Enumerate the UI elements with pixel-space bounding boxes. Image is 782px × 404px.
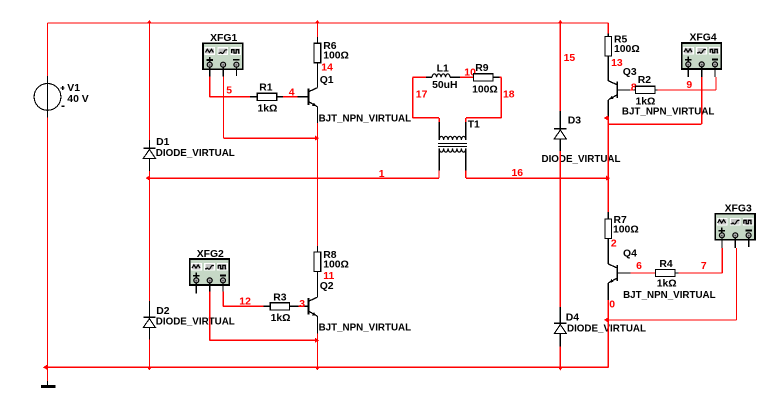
- resistor R3: [270, 303, 289, 310]
- resistor R6: [314, 43, 321, 63]
- svg-text:BJT_NPN_VIRTUAL: BJT_NPN_VIRTUAL: [622, 106, 715, 117]
- XFG4 terminal stubs: [687, 66, 689, 77]
- wire bottom rail: [48, 366, 609, 368]
- svg-text:0: 0: [609, 300, 615, 311]
- resistor R7: [605, 219, 612, 239]
- junction top rail / D3 column: [558, 20, 563, 24]
- diode D1 leads: [148, 140, 150, 171]
- wire net 5: [210, 96, 250, 98]
- diode D3: [554, 128, 566, 130]
- svg-text:D1: D1: [156, 137, 170, 148]
- svg-text:DIODE_VIRTUAL: DIODE_VIRTUAL: [542, 154, 622, 165]
- wire Q4 base lead: [617, 272, 630, 274]
- wire secondary left lead: [438, 148, 440, 170]
- svg-text:DIODE_VIRTUAL: DIODE_VIRTUAL: [567, 323, 647, 334]
- XFG2 terminal stubs: [195, 282, 197, 293]
- svg-text:BJT_NPN_VIRTUAL: BJT_NPN_VIRTUAL: [319, 323, 412, 334]
- svg-text:1kΩ: 1kΩ: [271, 313, 291, 324]
- diode D4: [554, 322, 566, 324]
- wire net 17: [413, 76, 426, 78]
- svg-text:4: 4: [289, 88, 295, 99]
- wire net 3: [299, 305, 305, 307]
- wire primary left lead: [438, 118, 440, 122]
- svg-text:15: 15: [564, 53, 576, 64]
- wire Q2 base lead: [305, 305, 309, 307]
- resistor R2 leads: [633, 89, 635, 91]
- junction node 16 right: [606, 176, 610, 181]
- transistor Q4: [616, 265, 618, 281]
- diode D2 leads: [148, 301, 150, 340]
- transistor Q2: [308, 298, 310, 314]
- svg-text:40 V: 40 V: [67, 94, 88, 105]
- svg-text:DIODE_VIRTUAL: DIODE_VIRTUAL: [156, 148, 236, 159]
- diode D3 leads: [559, 111, 561, 151]
- diode D2: [143, 316, 155, 318]
- transistor Q3: [616, 82, 618, 98]
- resistor R4 leads: [675, 272, 679, 274]
- junction Q1 emitter node: [315, 136, 319, 141]
- resistor R8: [314, 252, 321, 272]
- wire net 6: [631, 272, 656, 274]
- resistor R5: [605, 37, 612, 57]
- svg-text:100Ω: 100Ω: [614, 44, 640, 55]
- svg-text:3: 3: [299, 299, 305, 310]
- svg-text:16: 16: [512, 168, 524, 179]
- svg-text:13: 13: [611, 58, 623, 69]
- svg-text:R4: R4: [659, 259, 673, 270]
- wire net 9: [658, 89, 716, 91]
- resistor R6 leads: [316, 37, 318, 43]
- wire Q4 emitter to bottom rail: [607, 300, 609, 367]
- wire top rail: [48, 22, 609, 24]
- wire node 1: [149, 177, 439, 179]
- svg-text:R9: R9: [475, 63, 489, 74]
- junction bottom rail / D2 column: [147, 367, 152, 371]
- wire D1-D2 mid: [148, 171, 150, 301]
- ground: [41, 385, 56, 388]
- svg-text:5: 5: [226, 86, 232, 97]
- transformer T1 secondary: [439, 148, 466, 152]
- wire D3 column upper: [559, 23, 561, 111]
- wire net 18: [500, 76, 502, 78]
- transistor Q1: [308, 89, 310, 105]
- svg-text:17: 17: [416, 90, 428, 101]
- svg-text:R1: R1: [259, 83, 273, 94]
- svg-text:R3: R3: [273, 293, 287, 304]
- svg-text:D3: D3: [568, 116, 582, 127]
- wire XFG4 common to emitter: [701, 77, 703, 124]
- wire net 4: [283, 96, 298, 98]
- wire D2 to bottom rail: [148, 340, 150, 368]
- wire node 16: [466, 177, 609, 179]
- resistor R5 leads: [607, 33, 609, 36]
- svg-text:Q2: Q2: [320, 281, 334, 292]
- resistor R4: [656, 269, 675, 276]
- wire rail corner to R5: [607, 23, 609, 33]
- diode D1: [143, 147, 155, 149]
- svg-text:1kΩ: 1kΩ: [657, 279, 677, 290]
- resistor R3 leads: [290, 305, 299, 307]
- wire D3-D4 mid: [559, 151, 561, 307]
- resistor R7 leads: [607, 212, 609, 219]
- resistor R2: [636, 86, 655, 93]
- svg-text:9: 9: [686, 80, 692, 91]
- resistor R9: [474, 74, 493, 81]
- wire primary right lead: [465, 118, 467, 122]
- svg-text:18: 18: [503, 90, 515, 101]
- svg-text:1: 1: [379, 169, 385, 180]
- wire net 10: [460, 76, 474, 78]
- svg-text:R2: R2: [638, 75, 652, 86]
- transformer T1 primary: [439, 136, 466, 140]
- wire V1 top lead to rail: [47, 23, 49, 76]
- junction Q2 emitter node: [315, 338, 319, 343]
- wire rail to R6: [316, 23, 318, 37]
- svg-text:D2: D2: [156, 306, 170, 317]
- svg-text:100Ω: 100Ω: [323, 260, 349, 271]
- wire Q3 emitter black: [607, 100, 609, 117]
- svg-text:50uH: 50uH: [432, 80, 457, 91]
- svg-text:BJT_NPN_VIRTUAL: BJT_NPN_VIRTUAL: [319, 114, 412, 125]
- wire net 8: [630, 89, 634, 91]
- svg-text:1kΩ: 1kΩ: [636, 96, 656, 107]
- junction bottom rail / Q2 column: [315, 367, 320, 371]
- wire Q1 emitter column: [316, 107, 318, 124]
- svg-text:14: 14: [321, 62, 333, 73]
- resistor R9 lead: [493, 76, 500, 78]
- svg-text:Q4: Q4: [623, 249, 637, 260]
- wire Q2 emitter to bottom rail: [316, 316, 318, 333]
- junction top rail / R6 column: [315, 20, 320, 24]
- junction node 1 left: [146, 176, 150, 181]
- svg-text:BJT_NPN_VIRTUAL: BJT_NPN_VIRTUAL: [623, 290, 716, 301]
- svg-text:XFG3: XFG3: [725, 203, 752, 214]
- svg-text:Q1: Q1: [320, 75, 334, 86]
- wire Q4 emitter black: [607, 283, 609, 300]
- svg-text:100Ω: 100Ω: [323, 51, 349, 62]
- junction bottom-left: [43, 365, 47, 370]
- svg-text:100Ω: 100Ω: [472, 85, 498, 96]
- wire Q3 emitter to node 16: [607, 117, 609, 213]
- junction bottom rail / D4 column: [558, 367, 563, 371]
- resistor R1: [257, 93, 276, 100]
- wire XFG3 common to emitter: [735, 248, 737, 320]
- svg-text:1kΩ: 1kΩ: [258, 104, 278, 115]
- wire D1 column upper: [148, 23, 150, 140]
- wire Q3 base lead: [617, 89, 630, 91]
- svg-text:Q3: Q3: [623, 67, 637, 78]
- diode D4 leads: [559, 307, 561, 346]
- wire XFG1 common to emitter: [222, 77, 224, 139]
- resistor R1 leads: [277, 96, 284, 98]
- wire ground stub: [47, 367, 49, 381]
- wire secondary right lead: [465, 148, 467, 170]
- junction top rail / D1 column: [147, 20, 152, 24]
- wire D4 to bottom rail: [559, 346, 561, 367]
- junction Q4 emitter node: [604, 317, 608, 322]
- voltage source V1: [47, 76, 49, 118]
- resistor R8 leads: [316, 246, 318, 252]
- svg-text:V1: V1: [67, 83, 80, 94]
- svg-text:7: 7: [701, 261, 707, 272]
- wire net 7: [678, 272, 722, 274]
- wire net 12: [223, 305, 264, 307]
- transformer T1 core: [438, 143, 467, 145]
- inductor L1: [432, 74, 450, 77]
- junction Q3 emitter node: [604, 115, 608, 120]
- wire XFG2 common to emitter: [209, 292, 211, 341]
- svg-text:T1: T1: [468, 120, 480, 131]
- svg-text:12: 12: [239, 297, 251, 308]
- svg-text:L1: L1: [437, 63, 449, 74]
- inductor L1 leads: [426, 76, 432, 78]
- svg-text:100Ω: 100Ω: [613, 224, 639, 235]
- svg-text:6: 6: [636, 261, 642, 272]
- svg-text:D4: D4: [566, 313, 580, 324]
- wire V1 bottom to bottom rail: [47, 118, 49, 368]
- svg-text:2: 2: [611, 238, 617, 249]
- svg-text:DIODE_VIRTUAL: DIODE_VIRTUAL: [156, 317, 236, 328]
- wire Q1 base lead: [298, 96, 309, 98]
- XFG3 terminal stubs: [721, 237, 723, 248]
- XFG1 terminal stubs: [209, 67, 211, 77]
